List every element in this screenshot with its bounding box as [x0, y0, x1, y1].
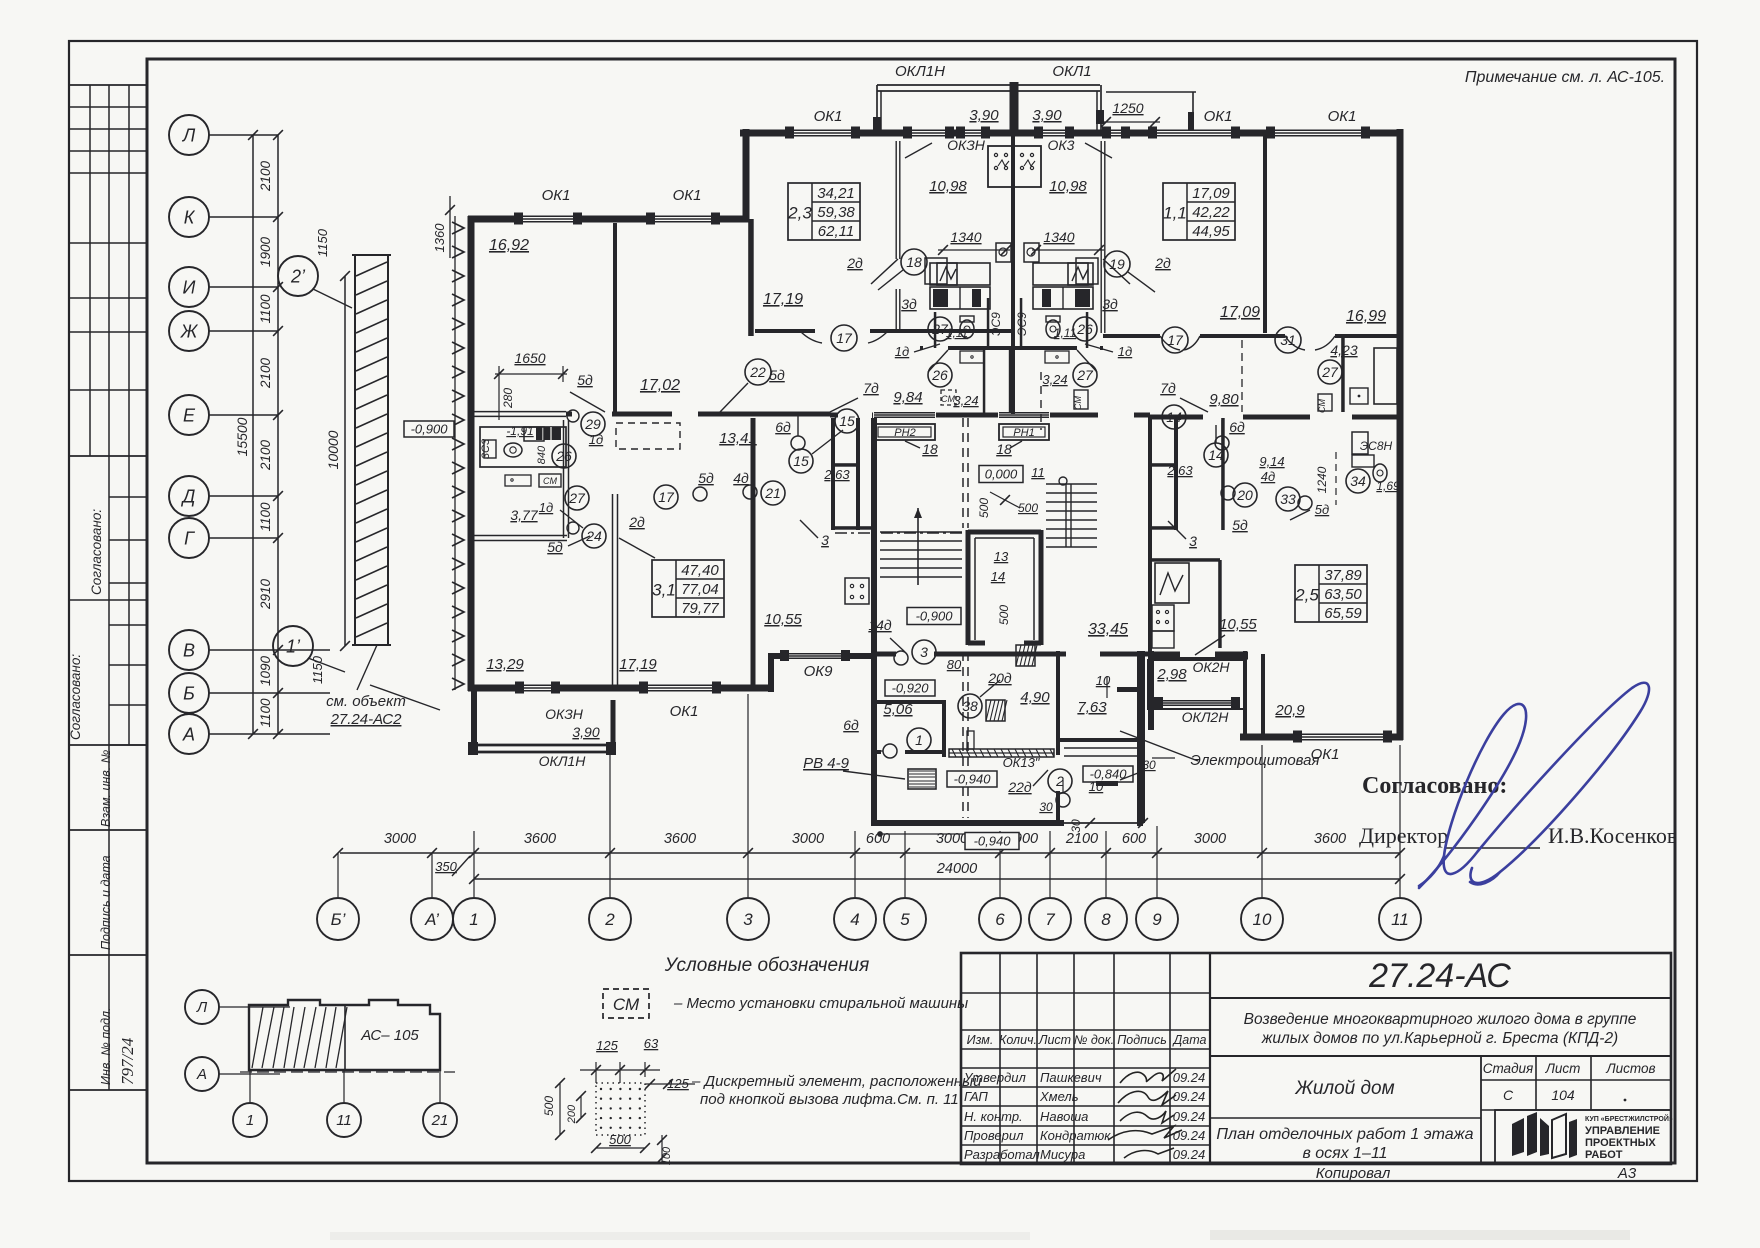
СМ box right: [1074, 390, 1088, 409]
svg-text:Колич.: Колич.: [999, 1033, 1037, 1047]
blue handwritten signature: [1419, 683, 1649, 888]
callout 15 lower: [789, 449, 813, 473]
entrance porch lines: [1061, 822, 1143, 824]
svg-text:3,90: 3,90: [572, 724, 599, 740]
callout 31: [1275, 327, 1301, 353]
svg-text:500: 500: [609, 1132, 631, 1147]
svg-text:2,63: 2,63: [1166, 463, 1193, 478]
title block revision grid verticals: [999, 953, 1001, 1164]
balcony thin outline top right: [1106, 91, 1196, 93]
legend discrete element symbol (dotted square): [596, 1083, 645, 1135]
svg-text:Дата: Дата: [1172, 1033, 1207, 1047]
svg-text:2д: 2д: [1154, 255, 1171, 271]
svg-text:СМ: СМ: [543, 476, 557, 486]
svg-text:3д: 3д: [1102, 296, 1118, 312]
svg-text:30: 30: [1142, 758, 1156, 772]
svg-text:104: 104: [1551, 1087, 1575, 1103]
axis circle Д: [169, 476, 209, 516]
axis circle Б’: [317, 898, 359, 940]
svg-text:4д: 4д: [1261, 469, 1275, 484]
svg-text:Электрощитовая: Электрощитовая: [1190, 752, 1319, 769]
svg-text:ЭС9: ЭС9: [989, 312, 1003, 336]
svg-text:27: 27: [568, 490, 586, 506]
svg-text:3: 3: [920, 644, 928, 660]
svg-text:И.В.Косенков: И.В.Косенков: [1548, 823, 1677, 848]
svg-text:200: 200: [566, 1104, 578, 1124]
svg-text:– Дискретный элемент, располож: – Дискретный элемент, расположенный: [691, 1073, 982, 1090]
callout 38: [958, 694, 982, 718]
svg-text:13: 13: [994, 549, 1009, 564]
axis circle 11: [1379, 898, 1421, 940]
left overall dimension 15500: [252, 135, 254, 734]
partition between 17,09 and 16,99: [1263, 136, 1267, 333]
svg-text:ОКЗН: ОКЗН: [947, 137, 986, 153]
svg-text:КУП «БРЕСТЖИЛСТРОЙ»: КУП «БРЕСТЖИЛСТРОЙ»: [1585, 1114, 1673, 1123]
svg-text:4д: 4д: [733, 470, 749, 486]
callout 17 room doors: [654, 485, 678, 509]
svg-text:4,90: 4,90: [1020, 689, 1050, 706]
svg-text:ОК2Н: ОК2Н: [1192, 659, 1230, 675]
svg-text:Мисура: Мисура: [1040, 1147, 1085, 1162]
svg-text:ОК1: ОК1: [542, 187, 571, 204]
svg-text:18: 18: [906, 254, 922, 270]
svg-text:15: 15: [793, 453, 809, 469]
corridor wall upper-left: thin bath segment: [474, 411, 566, 413]
svg-text:63: 63: [644, 1036, 659, 1051]
side stamp column grid: [70, 84, 147, 86]
svg-text:600: 600: [866, 831, 890, 847]
overall dimension 24000: [474, 878, 1400, 880]
svg-text:2,98: 2,98: [1156, 666, 1187, 683]
svg-text:1’: 1’: [286, 636, 301, 656]
svg-text:см. объект: см. объект: [326, 693, 406, 710]
left dimension chain line: [277, 135, 279, 734]
svg-text:38: 38: [962, 698, 978, 714]
svg-text:3д: 3д: [901, 296, 917, 312]
partition x615 lower (thin): [612, 494, 614, 685]
svg-text:Л: Л: [196, 999, 208, 1016]
svg-text:13,41: 13,41: [719, 430, 757, 447]
svg-text:16,99: 16,99: [1346, 308, 1386, 325]
svg-text:09.24: 09.24: [1173, 1109, 1206, 1124]
title block outline: [961, 953, 1671, 1164]
svg-text:3600: 3600: [1314, 831, 1346, 847]
toilet right apartment: [1373, 464, 1387, 482]
svg-text:3,24: 3,24: [1042, 372, 1067, 387]
svg-text:26: 26: [555, 448, 572, 464]
apartment table 2.5: [1295, 565, 1367, 622]
svg-text:500: 500: [977, 498, 991, 518]
bathtub right apartment: [1374, 348, 1397, 404]
partition right of entrance (Электрощитовая): [1141, 651, 1145, 823]
callout 21: [761, 481, 785, 505]
svg-text:21: 21: [764, 485, 781, 501]
lobby wall with windows above radiators: [830, 413, 1098, 418]
room 17,19 bottom wall with door opening: [755, 329, 1014, 333]
svg-text:АС– 105: АС– 105: [360, 1027, 419, 1044]
svg-text:Лист: Лист: [1038, 1033, 1071, 1047]
key plan: [185, 990, 219, 1024]
callout 27 wc left: [928, 317, 952, 341]
apartment table 1.1: [1163, 183, 1235, 240]
svg-text:СМ: СМ: [613, 995, 640, 1014]
room 2,63 right wall: [1221, 418, 1225, 530]
svg-text:125: 125: [596, 1038, 618, 1053]
svg-text:-0,900: -0,900: [916, 608, 954, 623]
callout 33: [1276, 487, 1300, 511]
svg-text:14: 14: [991, 569, 1005, 584]
entrance bay / stair hall left wall: [871, 417, 877, 826]
svg-text:Подпись и дата: Подпись и дата: [99, 855, 113, 950]
radiator РН2: [874, 424, 935, 440]
svg-text:Б’: Б’: [331, 910, 346, 929]
OK2N bay: [1148, 660, 1245, 709]
callout 3 entrance: [912, 640, 936, 664]
svg-text:7д: 7д: [863, 380, 879, 396]
svg-text:-0,920: -0,920: [892, 680, 930, 695]
svg-text:РВ 4-9: РВ 4-9: [803, 755, 850, 772]
svg-text:План отделочных работ 1 этажа: План отделочных работ 1 этажа: [1216, 1126, 1473, 1143]
svg-text:62,11: 62,11: [818, 223, 854, 240]
svg-text:19: 19: [1109, 256, 1125, 272]
exterior wall: main top (axis Л): [740, 130, 1403, 137]
bath rooms dividing wall y348: [920, 346, 1103, 350]
callout 27 right apt: [1318, 360, 1342, 384]
svg-text:18: 18: [922, 441, 938, 457]
svg-text:ОКЗН: ОКЗН: [545, 706, 584, 722]
exterior wall: right section bottom: [1240, 734, 1403, 741]
exterior wall: left section top: [468, 216, 749, 223]
svg-text:1100: 1100: [258, 502, 273, 532]
svg-text:10,98: 10,98: [929, 178, 967, 195]
fridge W box left room: [1155, 563, 1189, 603]
window jamb stub: [967, 731, 974, 749]
axis circle 2-prime: [278, 256, 318, 296]
sinks near shafts: [996, 243, 1011, 262]
svg-text:2100: 2100: [1065, 831, 1098, 847]
svg-text:Согласовано:: Согласовано:: [68, 654, 83, 740]
wardrobe dashed line room 17,09: [1241, 340, 1243, 412]
callout 27 low right: [1073, 363, 1097, 387]
hatched block entrance: [1016, 645, 1037, 666]
fridge W boxes near axis 18/19: [925, 258, 947, 284]
axis circle Г: [169, 518, 209, 558]
washing machine boxes left: [505, 475, 531, 486]
svg-text:47,40: 47,40: [681, 562, 719, 579]
callout 2: [1048, 769, 1072, 793]
kitchen wall right section: [1152, 558, 1220, 562]
svg-text:1250: 1250: [1112, 100, 1143, 116]
svg-text:1,11: 1,11: [1054, 326, 1076, 340]
svg-text:5д: 5д: [769, 367, 785, 383]
kitchen counters right apartment: [1033, 263, 1093, 285]
bottom-left bay walls: [471, 691, 477, 753]
svg-text:Возведение многоквартирного жи: Возведение многоквартирного жилого дома …: [1244, 1011, 1637, 1028]
axis circle 2: [589, 898, 631, 940]
svg-text:17,09: 17,09: [1220, 304, 1260, 321]
svg-text:Стадия: Стадия: [1483, 1061, 1534, 1076]
axis circle Л: [169, 115, 209, 155]
elevation -0,840: [1083, 766, 1133, 782]
legend discrete element dims: [595, 1062, 597, 1083]
leader line to -0,940 below: [880, 833, 965, 835]
svg-text:А: А: [196, 1066, 207, 1083]
svg-text:10: 10: [1096, 673, 1111, 688]
svg-text:42,22: 42,22: [1192, 204, 1230, 221]
kitchen bottom wall left apartment: [471, 535, 567, 537]
wall break symbols: [1117, 687, 1139, 692]
partition between 17,19 lower and 10,55: [751, 418, 756, 688]
svg-text:РН1: РН1: [1013, 427, 1034, 439]
corridor wall right section: [1148, 415, 1403, 420]
svg-text:17: 17: [658, 489, 675, 505]
svg-text:1д: 1д: [589, 432, 603, 447]
svg-text:20: 20: [1236, 487, 1253, 503]
svg-text:5д: 5д: [1315, 502, 1329, 517]
svg-text:Директор: Директор: [1359, 823, 1448, 848]
svg-text:26: 26: [931, 367, 948, 383]
svg-text:Пашкевич: Пашкевич: [1040, 1070, 1102, 1085]
toilet left apartment block: [480, 427, 566, 467]
svg-text:Лист: Лист: [1545, 1061, 1581, 1076]
svg-text:14: 14: [1166, 409, 1182, 425]
svg-text:-0,900: -0,900: [411, 421, 449, 436]
svg-text:22д: 22д: [1007, 779, 1032, 795]
svg-text:11: 11: [1391, 910, 1409, 929]
axis circle 9: [1136, 898, 1178, 940]
windows in main top wall: [786, 130, 859, 137]
svg-text:15: 15: [839, 413, 855, 429]
svg-text:– Место установки стиральной м: – Место установки стиральной машины: [673, 995, 968, 1012]
axis circle К: [169, 197, 209, 237]
svg-text:1100: 1100: [258, 294, 273, 324]
exterior wall: left section bottom: [468, 685, 774, 692]
svg-text:УПРАВЛЕНИЕ: УПРАВЛЕНИЕ: [1585, 1125, 1660, 1137]
side stamp cell Подпись и дата: [70, 954, 147, 956]
svg-text:1090: 1090: [258, 655, 273, 686]
svg-text:1150: 1150: [310, 655, 325, 684]
svg-text:3: 3: [821, 532, 829, 548]
svg-text:2: 2: [604, 910, 615, 929]
svg-text:1д: 1д: [895, 344, 909, 359]
callout 17 right: [1162, 327, 1188, 353]
svg-text:9,14: 9,14: [1259, 454, 1284, 469]
leader to note см. объект 27.24-АС2: [357, 645, 377, 690]
svg-text:09.24: 09.24: [1173, 1128, 1206, 1143]
svg-text:7д: 7д: [1160, 380, 1176, 396]
elevation -0,940 porch: [947, 771, 997, 787]
svg-text:3000: 3000: [384, 831, 416, 847]
svg-text:1,1: 1,1: [1163, 204, 1187, 223]
axis circle 7: [1029, 898, 1071, 940]
apartment table 2.3: [788, 183, 860, 240]
svg-text:10,55: 10,55: [1219, 616, 1257, 633]
OK9 bay wall: [768, 653, 877, 659]
svg-text:ОК1: ОК1: [670, 703, 699, 720]
svg-text:500: 500: [997, 605, 1011, 625]
key plan axis circle 11: [327, 1103, 361, 1137]
svg-text:3000: 3000: [1194, 831, 1226, 847]
svg-text:5д: 5д: [577, 372, 593, 388]
svg-text:17,19: 17,19: [763, 291, 803, 308]
svg-text:ОК9: ОК9: [804, 663, 834, 680]
key plan dashed axis: [240, 1071, 455, 1073]
svg-text:30: 30: [1039, 800, 1053, 814]
svg-text:09.24: 09.24: [1173, 1089, 1206, 1104]
svg-text:под кнопкой вызова лифта.См. п: под кнопкой вызова лифта.См. п. 11: [700, 1091, 959, 1108]
svg-text:5д: 5д: [547, 539, 563, 555]
side stamp cell Инв. № подл.: [70, 1089, 147, 1091]
svg-text:ОКЛ1: ОКЛ1: [1052, 63, 1091, 80]
svg-text:3000: 3000: [792, 831, 824, 847]
axis circle Б: [169, 673, 209, 713]
svg-text:80: 80: [947, 657, 962, 672]
legend СМ symbol: [603, 989, 649, 1018]
svg-text:1: 1: [246, 1112, 254, 1129]
svg-text:20д: 20д: [987, 670, 1012, 686]
svg-text:Подпись: Подпись: [1117, 1033, 1167, 1047]
axis circle 1: [453, 898, 495, 940]
entrance bay: bottom wall: [871, 820, 1064, 826]
svg-text:26: 26: [1076, 321, 1093, 337]
svg-text:ОКЛ1Н: ОКЛ1Н: [539, 753, 587, 769]
svg-text:65,59: 65,59: [1324, 605, 1362, 622]
svg-text:Хмель: Хмель: [1039, 1089, 1079, 1104]
svg-text:2’: 2’: [290, 266, 306, 286]
axis circle А: [169, 714, 209, 754]
svg-text:5,06: 5,06: [883, 701, 913, 718]
svg-text:3,90: 3,90: [969, 107, 999, 124]
svg-text:2910: 2910: [258, 578, 273, 610]
elevation -0,900 center: [907, 608, 961, 625]
svg-text:ОКЛ1Н: ОКЛ1Н: [895, 63, 945, 80]
kitchen counters left apartment: [930, 263, 990, 285]
svg-text:Ж: Ж: [180, 321, 199, 341]
svg-text:СМ: СМ: [941, 394, 955, 404]
svg-text:10,98: 10,98: [1049, 178, 1087, 195]
columns Стадия Лист Листов: [1480, 1056, 1482, 1164]
svg-text:09.24: 09.24: [1173, 1147, 1206, 1162]
side stamp cell Взам. инв. №: [70, 829, 147, 831]
axis circle Е: [169, 395, 209, 435]
svg-text:1900: 1900: [258, 236, 273, 267]
small cabinets dotted under corridor wall: [960, 351, 984, 363]
entrance bay: right wall: [1137, 651, 1143, 826]
svg-text:ОК13": ОК13": [1003, 755, 1041, 770]
svg-text:9,80: 9,80: [1209, 391, 1239, 408]
svg-text:-0,940: -0,940: [974, 833, 1012, 848]
svg-text:2100: 2100: [258, 160, 273, 192]
svg-text:2100: 2100: [258, 439, 273, 471]
kitchen stove apartment 3.1: [845, 578, 869, 604]
svg-text:ОК1: ОК1: [1311, 746, 1340, 763]
building cut zigzag marks along left wall: [452, 222, 464, 690]
svg-text:2100: 2100: [258, 357, 273, 389]
svg-text:ОК1: ОК1: [673, 187, 702, 204]
svg-text:10: 10: [1253, 910, 1272, 929]
svg-text:Условные обозначения: Условные обозначения: [664, 955, 869, 976]
bathroom wall right apartment: [1341, 338, 1345, 412]
svg-text:17,19: 17,19: [619, 656, 657, 673]
callout 17 left: [831, 325, 857, 351]
svg-text:22: 22: [749, 364, 766, 380]
svg-text:1360: 1360: [432, 223, 447, 253]
callout 27 kitchen left: [565, 486, 589, 510]
svg-text:Н. контр.: Н. контр.: [964, 1109, 1023, 1124]
dimension 10000 (building width): [344, 276, 346, 646]
svg-text:1: 1: [469, 910, 478, 929]
axis circle 4: [834, 898, 876, 940]
svg-text:9,84: 9,84: [893, 389, 922, 406]
svg-text:6д: 6д: [1229, 419, 1245, 435]
svg-text:Взам. инв. №: Взам. инв. №: [99, 749, 113, 827]
svg-text:11: 11: [1031, 465, 1045, 480]
callout 34: [1346, 469, 1370, 493]
svg-text:в осях 1–11: в осях 1–11: [1302, 1145, 1387, 1162]
svg-text:1,69: 1,69: [1376, 479, 1400, 493]
signature line: [1446, 847, 1540, 849]
svg-text:Согласовано:: Согласовано:: [1362, 773, 1507, 799]
radiator РН1: [999, 424, 1049, 440]
elevation -0,940 below entrance: [965, 833, 1019, 850]
callout 22: [745, 359, 771, 385]
corridor dashed guides: [962, 418, 964, 528]
svg-text:77,04: 77,04: [681, 581, 719, 598]
svg-text:3,1: 3,1: [652, 581, 676, 600]
svg-text:840: 840: [536, 445, 548, 464]
bath cell partitions: [934, 312, 937, 348]
callout 19: [1104, 251, 1130, 277]
svg-text:Л: Л: [182, 125, 196, 145]
logo УПРАВЛЕНИЕ ПРОЕКТНЫХ РАБОТ: [1512, 1112, 1577, 1158]
svg-text:1150: 1150: [315, 228, 330, 257]
callout 26 wc right: [1073, 317, 1097, 341]
axis circle 10: [1241, 898, 1283, 940]
callout 1 entrance: [907, 728, 931, 752]
ventilation shaft blocks with stoves: [988, 146, 1014, 187]
svg-text:14д: 14д: [868, 617, 892, 633]
svg-text:Копировал: Копировал: [1316, 1165, 1391, 1182]
svg-text:№ док.: № док.: [1074, 1033, 1114, 1047]
svg-text:17,09: 17,09: [1192, 185, 1230, 202]
axis circle 1-prime: [273, 626, 313, 666]
svg-text:5: 5: [900, 910, 910, 929]
svg-text:3,90: 3,90: [1032, 107, 1062, 124]
svg-text:2,63: 2,63: [823, 467, 850, 482]
svg-text:797/24: 797/24: [118, 1037, 137, 1085]
svg-text:6д: 6д: [775, 419, 791, 435]
bottom dimension chain: [340, 852, 1400, 854]
key plan axis circle 21: [423, 1103, 457, 1137]
svg-text:3000: 3000: [936, 831, 968, 847]
svg-text:Проверил: Проверил: [964, 1128, 1024, 1143]
handwritten signatures in title block: [1108, 1069, 1182, 1158]
exterior wall: left: [468, 216, 475, 691]
svg-text:1,11: 1,11: [946, 326, 968, 340]
logo box: [1495, 1110, 1671, 1164]
hatched block РВ 4-9: [908, 769, 936, 789]
elevation -0,900 left: [404, 421, 454, 437]
axis circle 6: [979, 898, 1021, 940]
svg-text:15500: 15500: [234, 417, 250, 456]
svg-text:1240: 1240: [1315, 466, 1329, 493]
СМ box right apartment: [1318, 394, 1332, 411]
svg-text:3,77: 3,77: [510, 507, 538, 523]
svg-text:9: 9: [1152, 910, 1162, 929]
svg-text:59,38: 59,38: [817, 204, 855, 221]
lower center partitions (rooms 5,06 / 4,90): [942, 700, 946, 757]
svg-text:5д: 5д: [1232, 517, 1248, 533]
